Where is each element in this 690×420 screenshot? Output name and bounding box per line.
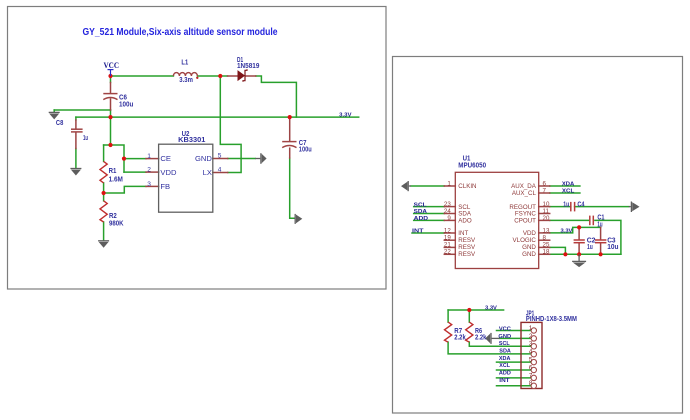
svg-text:1: 1 bbox=[447, 181, 451, 188]
svg-text:8: 8 bbox=[529, 380, 533, 387]
svg-text:3.3V: 3.3V bbox=[339, 112, 351, 118]
svg-text:SCL: SCL bbox=[414, 202, 427, 208]
svg-text:10u: 10u bbox=[607, 244, 618, 251]
svg-text:1u: 1u bbox=[587, 244, 593, 251]
svg-text:MPU6050: MPU6050 bbox=[458, 162, 486, 169]
svg-text:1u: 1u bbox=[83, 135, 88, 142]
svg-text:GND: GND bbox=[522, 251, 536, 258]
svg-text:XCL: XCL bbox=[499, 363, 510, 369]
svg-text:VDD: VDD bbox=[160, 168, 177, 177]
svg-text:3.3V: 3.3V bbox=[485, 306, 497, 312]
svg-text:R1: R1 bbox=[109, 168, 117, 175]
svg-text:4: 4 bbox=[529, 349, 533, 356]
svg-text:XCL: XCL bbox=[562, 189, 575, 195]
svg-text:2: 2 bbox=[147, 167, 151, 174]
svg-text:12: 12 bbox=[444, 228, 451, 235]
svg-text:22: 22 bbox=[444, 249, 451, 256]
svg-text:XDA: XDA bbox=[499, 356, 511, 362]
svg-text:8: 8 bbox=[543, 235, 547, 242]
svg-text:7: 7 bbox=[543, 188, 547, 195]
svg-text:SDA: SDA bbox=[499, 348, 511, 354]
svg-text:C1: C1 bbox=[597, 214, 604, 221]
svg-text:GND: GND bbox=[195, 154, 212, 163]
svg-text:3: 3 bbox=[529, 341, 533, 348]
svg-text:100u: 100u bbox=[119, 101, 133, 108]
svg-text:L1: L1 bbox=[181, 59, 188, 66]
svg-text:INT: INT bbox=[412, 229, 424, 235]
svg-text:25: 25 bbox=[543, 242, 550, 249]
svg-text:21: 21 bbox=[444, 242, 451, 249]
svg-text:ADO: ADO bbox=[458, 218, 472, 225]
svg-text:C8: C8 bbox=[56, 120, 63, 127]
svg-text:1u: 1u bbox=[563, 201, 569, 208]
svg-text:PINHD-1X8-3.5MM: PINHD-1X8-3.5MM bbox=[526, 316, 577, 323]
svg-text:6: 6 bbox=[529, 364, 533, 371]
svg-text:GND: GND bbox=[498, 334, 511, 340]
svg-text:CLKIN: CLKIN bbox=[458, 183, 476, 190]
svg-text:INT: INT bbox=[458, 230, 468, 237]
svg-text:INT: INT bbox=[499, 378, 510, 384]
svg-text:19: 19 bbox=[444, 235, 451, 242]
svg-text:ADD: ADD bbox=[499, 371, 511, 377]
svg-text:18: 18 bbox=[543, 249, 550, 256]
svg-text:1: 1 bbox=[529, 325, 533, 332]
svg-text:3.3V: 3.3V bbox=[561, 228, 573, 234]
svg-text:4: 4 bbox=[218, 166, 222, 173]
svg-text:SCL: SCL bbox=[499, 341, 510, 347]
svg-text:20: 20 bbox=[543, 215, 550, 222]
svg-text:RESV: RESV bbox=[458, 251, 476, 258]
svg-text:6: 6 bbox=[543, 181, 547, 188]
svg-text:XDA: XDA bbox=[562, 182, 575, 188]
svg-text:VDD: VDD bbox=[523, 230, 537, 237]
svg-text:3: 3 bbox=[147, 181, 151, 188]
svg-text:2.2k: 2.2k bbox=[475, 334, 486, 341]
svg-text:U1: U1 bbox=[463, 155, 471, 162]
svg-text:LX: LX bbox=[203, 168, 212, 177]
svg-text:7: 7 bbox=[529, 372, 533, 379]
svg-text:2: 2 bbox=[529, 333, 533, 340]
svg-text:5: 5 bbox=[218, 153, 222, 160]
svg-text:1.6M: 1.6M bbox=[109, 176, 123, 183]
svg-text:SDA: SDA bbox=[414, 209, 428, 215]
svg-text:AUX_CL: AUX_CL bbox=[512, 190, 537, 197]
svg-text:RESV: RESV bbox=[458, 237, 476, 244]
svg-text:3.3m: 3.3m bbox=[179, 77, 193, 84]
svg-text:1N5819: 1N5819 bbox=[237, 63, 259, 70]
svg-text:ADD: ADD bbox=[414, 216, 428, 222]
svg-text:5: 5 bbox=[529, 357, 533, 364]
svg-text:KB3301: KB3301 bbox=[178, 137, 205, 144]
svg-text:C4: C4 bbox=[577, 201, 584, 208]
svg-text:VCC: VCC bbox=[104, 61, 120, 70]
svg-text:1u: 1u bbox=[597, 221, 602, 228]
svg-text:CPOUT: CPOUT bbox=[514, 218, 536, 225]
svg-text:R2: R2 bbox=[109, 213, 117, 220]
svg-text:100u: 100u bbox=[299, 147, 312, 154]
svg-text:VLOGIC: VLOGIC bbox=[513, 237, 537, 244]
svg-text:2.2k: 2.2k bbox=[454, 334, 465, 341]
svg-text:13: 13 bbox=[543, 228, 550, 235]
svg-text:9: 9 bbox=[447, 215, 451, 222]
svg-text:CE: CE bbox=[160, 154, 171, 163]
svg-text:980K: 980K bbox=[109, 220, 124, 227]
svg-text:GY_521 Module,Six-axis altitud: GY_521 Module,Six-axis altitude sensor m… bbox=[83, 27, 279, 38]
svg-text:1: 1 bbox=[147, 153, 151, 160]
svg-text:FB: FB bbox=[160, 182, 170, 191]
svg-text:VCC: VCC bbox=[499, 326, 512, 332]
